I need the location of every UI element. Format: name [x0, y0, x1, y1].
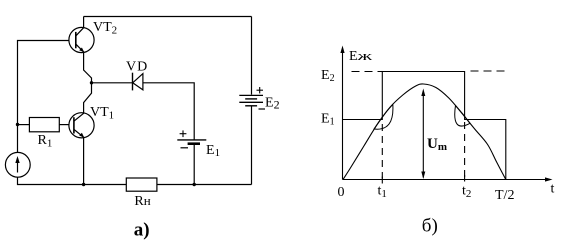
wire right lower (E2 - down to bottom wire) [251, 106, 253, 185]
wire R1 right to VT1 base [59, 124, 74, 126]
dashed E2 level left [352, 71, 383, 73]
svg-text:Е: Е [349, 49, 358, 64]
dashed t1 line [381, 124, 383, 179]
svg-text:t: t [551, 182, 555, 197]
battery E2 [239, 95, 263, 105]
svg-text:ж: ж [356, 48, 374, 63]
x axis [343, 179, 550, 181]
wire top (VT2 collector to E2 branch) [84, 16, 252, 18]
step waveform [343, 72, 506, 180]
tick t1 [381, 177, 383, 184]
dashed t2 line [464, 122, 466, 179]
E2 plus sign [257, 87, 264, 93]
current source G1 [5, 152, 30, 177]
tick t2 [464, 175, 466, 182]
resistor R1 [29, 118, 59, 132]
wire R1 left [18, 124, 30, 126]
dashed E2 level right [471, 70, 506, 72]
wire E1 bottom [193, 145, 195, 185]
resistor Rn [126, 178, 157, 191]
diode VD [133, 73, 143, 91]
transistor VT1 [69, 113, 94, 138]
battery E1 [177, 140, 206, 144]
eye bump at t1 [374, 104, 393, 129]
E1 plus sign [180, 130, 187, 137]
svg-text:Rн: Rн [134, 193, 150, 209]
wire VT1 emitter to bottom [83, 137, 85, 184]
wire left (current source up to junction and VT2 base) [18, 41, 76, 153]
svg-text:E2: E2 [265, 96, 280, 112]
svg-text:а): а) [134, 220, 150, 241]
transistor VT2 [69, 17, 94, 53]
y axis [342, 49, 344, 180]
wire bottom left (Rn to current source) [18, 177, 127, 184]
E2 minus sign [259, 108, 266, 110]
wire right upper (top wire down to E2 +) [251, 17, 253, 95]
E1 minus sign [181, 147, 189, 149]
eye bump at t2 [455, 106, 470, 127]
node junction E1-bottom [193, 183, 196, 186]
node junction VT1 emitter-bottom [82, 183, 85, 186]
svg-text:T/2: T/2 [495, 188, 514, 203]
node junction left-R1 [16, 123, 19, 126]
svg-text:VD: VD [126, 60, 148, 75]
wire diode row [92, 83, 195, 140]
node junction diode branch [90, 81, 93, 84]
arrow Um [422, 92, 424, 178]
svg-text:б): б) [422, 216, 438, 237]
sine curve [343, 84, 506, 180]
svg-text:0: 0 [338, 185, 345, 200]
wire VT2 emitter zigzag to VT1 collector [84, 52, 92, 113]
wire bottom right (E2 branch to Rn) [157, 184, 252, 186]
